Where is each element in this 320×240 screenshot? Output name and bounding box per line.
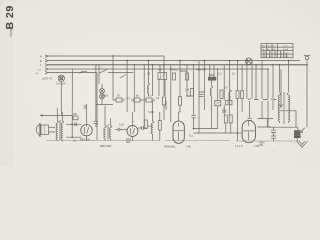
- terminal labels: [36, 56, 42, 76]
- capacitor C3: [94, 118, 98, 127]
- speaker: [37, 115, 73, 137]
- box R23: [229, 100, 232, 105]
- resistor R8: [236, 91, 239, 99]
- voltage table: [261, 44, 293, 58]
- capacitor C7: [271, 136, 276, 138]
- resistor R11: [158, 112, 161, 141]
- resistor R3: [143, 98, 155, 102]
- svg-text:▬▬: ▬▬: [263, 98, 268, 101]
- svg-text:4,2 V: 4,2 V: [283, 45, 288, 47]
- resistor R25: [229, 115, 232, 123]
- resistor R26: [144, 120, 147, 129]
- svg-text:REN: REN: [186, 95, 191, 98]
- svg-text:0,25: 0,25: [119, 124, 124, 127]
- svg-text:35mA: 35mA: [283, 48, 289, 51]
- svg-text:REN 904: REN 904: [196, 69, 206, 72]
- capacitor C2: [222, 110, 226, 112]
- svg-text:2000: 2000: [199, 91, 205, 94]
- coil L1: [229, 90, 232, 101]
- capacitor C9: [247, 101, 252, 120]
- svg-text:50 000: 50 000: [170, 69, 178, 72]
- switch S1: [79, 69, 133, 73]
- svg-text:5 000: 5 000: [148, 111, 155, 114]
- coil L4: [210, 86, 212, 96]
- power transformer T3: [278, 92, 290, 124]
- svg-text:50000: 50000: [180, 70, 187, 73]
- dial lamp: [245, 58, 252, 65]
- rectifier: [294, 128, 305, 138]
- svg-text:REN 1821: REN 1821: [165, 146, 177, 149]
- svg-text:LAUT. 4V: LAUT. 4V: [42, 78, 53, 81]
- tube V2: [127, 112, 138, 141]
- resistor R9: [241, 91, 244, 99]
- svg-text:100 000: 100 000: [165, 101, 168, 110]
- IF transformer T2: [104, 106, 112, 141]
- resistor R7: [208, 77, 216, 81]
- svg-text:0,3–0,5A: 0,3–0,5A: [56, 83, 66, 86]
- resistor R4: [173, 73, 176, 80]
- tuning capacitor block: [158, 73, 167, 80]
- resistor R6: [186, 73, 189, 80]
- resistor R12: [220, 90, 223, 99]
- lamp LA1: [58, 75, 64, 115]
- wire: [204, 94, 206, 110]
- wire: [258, 119, 274, 128]
- node A: [71, 123, 73, 125]
- svg-text:MENJ 904: MENJ 904: [100, 145, 112, 148]
- wire: [268, 119, 298, 131]
- pickup jack J1: [96, 84, 113, 105]
- capacitor C12: [84, 106, 87, 108]
- bottom rail: [46, 140, 300, 143]
- table text: [262, 45, 290, 58]
- resistor R27: [190, 89, 193, 97]
- scan speckle: [33, 47, 313, 152]
- capacitor C6: [271, 130, 276, 132]
- junction dots: [112, 55, 289, 69]
- switch S2: [120, 75, 126, 79]
- capacitor C4: [138, 126, 146, 130]
- tube V1: [81, 104, 92, 141]
- tube V3: [173, 112, 184, 143]
- title Nora B 29: [4, 5, 16, 36]
- node B: [71, 136, 73, 138]
- svg-text:354: 354: [259, 144, 264, 147]
- svg-text:▬▬: ▬▬: [254, 98, 259, 101]
- box R22: [226, 100, 229, 105]
- capacitor C11: [75, 122, 77, 126]
- svg-text:1,1-1,5: 1,1-1,5: [235, 145, 243, 148]
- bus wire 5: [48, 72, 97, 74]
- capacitor C10: [116, 128, 128, 132]
- ground: [297, 138, 308, 147]
- wire: [66, 106, 81, 137]
- svg-text:1 M: 1 M: [185, 89, 189, 92]
- capacitor C8: [199, 95, 204, 97]
- svg-text:240V: 240V: [284, 56, 289, 58]
- svg-text:REN 904: REN 904: [80, 139, 90, 142]
- node C: [193, 128, 195, 130]
- box R21: [215, 101, 221, 106]
- resistor R10: [163, 97, 166, 120]
- resistor R20: [73, 116, 78, 120]
- wire: [95, 65, 97, 118]
- svg-text:5000: 5000: [103, 95, 109, 98]
- resistor R10 value: [165, 101, 168, 110]
- terminal arrows: [45, 55, 48, 74]
- resistor R1: [113, 98, 125, 102]
- wire drops left: [72, 56, 152, 140]
- output transformer T1: [56, 108, 64, 142]
- bus wire 2: [48, 60, 300, 62]
- antenna post: [304, 56, 310, 128]
- coil L2: [151, 118, 154, 141]
- wire drops mid: [159, 61, 296, 141]
- svg-text:220V: 220V: [284, 52, 289, 54]
- svg-text:400: 400: [73, 113, 78, 116]
- resistor R24: [224, 115, 227, 123]
- capacitor C1: [191, 115, 195, 118]
- svg-text:5000: 5000: [209, 74, 215, 77]
- bus wire 1: [48, 56, 164, 96]
- svg-text:B 29: B 29: [4, 5, 16, 29]
- wire: [194, 129, 243, 133]
- svg-text:904: 904: [126, 141, 131, 144]
- tube V4: [242, 120, 255, 142]
- bus wire 3: [48, 64, 308, 66]
- svg-text:7-48: 7-48: [186, 146, 191, 149]
- resistor R5: [179, 97, 182, 106]
- bus wire 4: [48, 68, 268, 70]
- resistor R2: [131, 98, 143, 102]
- wire: [273, 127, 275, 141]
